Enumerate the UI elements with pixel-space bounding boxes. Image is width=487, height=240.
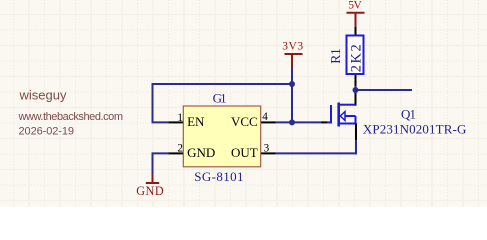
junction node 3V3/loop bbox=[289, 81, 295, 87]
svg-text:3V3: 3V3 bbox=[282, 40, 303, 52]
transistor Q1 gate pin stub bbox=[322, 121, 328, 123]
resistor R1 bottom pin bbox=[355, 74, 357, 86]
svg-text:XP231N0201TR-G: XP231N0201TR-G bbox=[363, 121, 467, 136]
wire pin4 to gate bbox=[276, 121, 323, 123]
svg-text:3: 3 bbox=[264, 142, 270, 154]
wire from pin 2 bbox=[152, 152, 169, 154]
svg-text:EN: EN bbox=[187, 114, 205, 129]
transistor Q1 symbol bbox=[327, 103, 356, 127]
IC G1 pin 1 line bbox=[168, 121, 183, 123]
wire left loop vertical bbox=[152, 83, 154, 122]
svg-text:2026-02-19: 2026-02-19 bbox=[19, 126, 75, 138]
svg-text:VCC: VCC bbox=[231, 114, 258, 129]
svg-text:wiseguy: wiseguy bbox=[19, 88, 68, 103]
power port GND bbox=[146, 173, 159, 183]
svg-text:1: 1 bbox=[177, 112, 183, 124]
power port 3V3 bbox=[285, 54, 303, 67]
wire R1 bottom to junction bbox=[355, 83, 357, 93]
wire net 3V3 top loop horizontal bbox=[153, 83, 293, 85]
svg-text:G1: G1 bbox=[213, 91, 227, 106]
IC G1 pin 3 line bbox=[261, 152, 276, 154]
svg-text:Q1: Q1 bbox=[401, 107, 416, 122]
wire to pin 1 bbox=[152, 121, 169, 123]
resistor R1 top pin bbox=[355, 27, 357, 36]
resistor R1 body bbox=[347, 36, 364, 75]
svg-text:R1: R1 bbox=[328, 48, 343, 64]
transistor Q1 drain pin vertical bbox=[355, 90, 357, 106]
wire source vertical bbox=[355, 138, 357, 154]
wire pin3 to source bbox=[276, 152, 357, 154]
power port 5V bbox=[347, 13, 365, 27]
svg-text:SG-8101: SG-8101 bbox=[194, 169, 243, 184]
junction node 3V3/pin4 bbox=[289, 119, 295, 125]
svg-text:2K2: 2K2 bbox=[348, 44, 364, 72]
title text block bbox=[18, 88, 124, 138]
svg-text:GND: GND bbox=[187, 145, 215, 160]
svg-text:2: 2 bbox=[177, 143, 183, 155]
wire down to GND bbox=[152, 153, 154, 174]
wire stub right of R1 junction bbox=[356, 89, 413, 91]
svg-text:www.thebackshed.com: www.thebackshed.com bbox=[18, 111, 124, 123]
transistor Q1 source pin vertical bbox=[355, 124, 357, 141]
junction node R1/drain/stub bbox=[353, 87, 359, 93]
svg-text:OUT: OUT bbox=[231, 145, 258, 160]
svg-text:GND: GND bbox=[136, 184, 164, 198]
svg-text:4: 4 bbox=[262, 111, 268, 123]
wire 3V3 vertical bbox=[291, 67, 293, 123]
IC G1 pin 2 line bbox=[168, 152, 183, 154]
IC G1 pin 4 line bbox=[261, 121, 276, 123]
IC G1 body bbox=[183, 106, 260, 167]
svg-text:5V: 5V bbox=[348, 0, 362, 12]
